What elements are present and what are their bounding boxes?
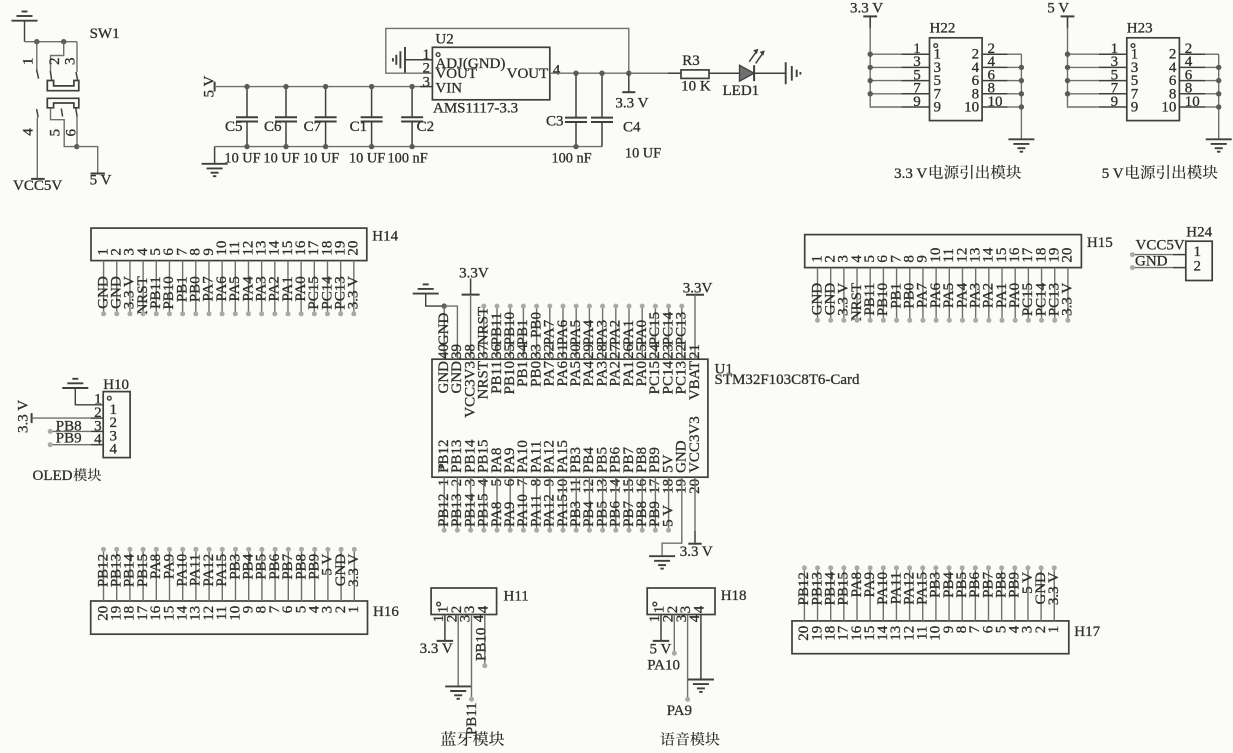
H22 right pin numbers: [964, 41, 1002, 116]
svg-text:3.3V: 3.3V: [459, 265, 489, 281]
wire H11 pin3 PB11: [471, 615, 473, 699]
junction C2 bottom: [409, 144, 414, 149]
junction 3.3V node: [626, 71, 631, 76]
wire H23 left pins: [1068, 54, 1127, 107]
svg-text:VOUT: VOUT: [507, 66, 549, 82]
wire U1 pin38: [470, 295, 472, 360]
junction U1 pin40: [442, 303, 447, 308]
switch SW1 ground (top-left): [12, 12, 38, 42]
junction C6 top: [283, 84, 288, 89]
ground (LED1, rotated): [786, 62, 801, 84]
power flag 3.3 V (H22): [863, 15, 877, 17]
connector H11 box: [431, 588, 497, 615]
svg-text:10 UF: 10 UF: [625, 146, 661, 162]
wire H24 pin1: [1132, 254, 1172, 256]
SW1 top wire: [25, 41, 78, 43]
junction C3 top: [573, 71, 578, 76]
svg-text:H24: H24: [1186, 225, 1212, 241]
svg-text:10: 10: [1185, 94, 1200, 110]
regulator U2 box: [432, 47, 549, 100]
power flag 3.3V (U1 pin38): [462, 279, 480, 295]
svg-text:VCC5V: VCC5V: [13, 178, 62, 194]
svg-text:10 UF: 10 UF: [263, 150, 299, 166]
H16 pin numbers: [95, 605, 362, 621]
ground (H23): [1206, 139, 1232, 151]
H10 endpoints: [48, 429, 53, 434]
H24 endpoints: [1130, 252, 1135, 257]
svg-text:VBAT: VBAT: [687, 361, 703, 400]
power flag 3.3V (H10): [31, 413, 33, 423]
svg-text:SW1: SW1: [90, 26, 120, 42]
power flag 5V (SW1): [91, 173, 105, 175]
svg-text:3.3 V: 3.3 V: [894, 166, 927, 182]
voice module caption: [660, 732, 719, 746]
U1 pin1 marker: [439, 464, 443, 468]
capacitor C4: [591, 73, 613, 146]
svg-text:H22: H22: [930, 21, 956, 37]
H18 pin1 marker: [653, 602, 657, 606]
svg-text:5 V: 5 V: [650, 642, 672, 658]
MCU U1 box: [432, 359, 708, 477]
U1 bottom pin endpoints: [442, 528, 671, 533]
svg-text:3.3 V: 3.3 V: [1046, 572, 1062, 605]
U2 pin1 marker: [436, 53, 440, 57]
wire U1 pin20 to 3.3V: [694, 477, 696, 531]
capacitor C2: [401, 87, 423, 147]
junctions H23 left bus: [1065, 52, 1070, 97]
junction C6 bottom: [283, 144, 288, 149]
power flag 3.3V (H11): [437, 640, 453, 642]
wire H22 left bus: [869, 16, 871, 28]
svg-text:10: 10: [988, 94, 1003, 110]
svg-text:LED1: LED1: [723, 83, 760, 99]
wire H10 pin2: [32, 417, 91, 419]
svg-text:H17: H17: [1074, 624, 1100, 640]
wire H18 pin4 to ground: [700, 615, 702, 680]
H17 pin endpoints: [802, 565, 1057, 570]
junction SW1 pin2: [61, 39, 66, 44]
power flag 5 V (H23): [1061, 15, 1075, 17]
svg-text:10 UF: 10 UF: [349, 150, 385, 166]
H16 net labels: [95, 553, 362, 587]
svg-text:21: 21: [687, 344, 703, 359]
wire H23 right pins: [1179, 54, 1218, 107]
H15 pin endpoints: [815, 318, 1070, 323]
svg-text:H16: H16: [373, 604, 399, 620]
svg-text:4: 4: [21, 128, 37, 136]
U1 top pin numbers: [436, 344, 703, 360]
svg-text:3.3 V: 3.3 V: [1060, 283, 1076, 316]
resistor R3: [681, 70, 709, 79]
wire U1 pin40: [443, 306, 445, 359]
wire H11 pin1 to 3.3V: [444, 615, 446, 641]
svg-text:VCC3V3: VCC3V3: [687, 416, 703, 473]
ground (U1 top-left): [413, 284, 445, 306]
junction C4 top: [599, 71, 604, 76]
svg-text:100 nF: 100 nF: [551, 150, 591, 166]
wire H16 pins: [104, 550, 355, 601]
wire H11 pin2 to ground: [457, 615, 459, 687]
H10 pin numbers: [94, 392, 117, 458]
wire U2 VOUT feedback loop: [386, 28, 629, 73]
ground (U2 ADJ, rotated): [393, 47, 433, 73]
junction C7 bottom: [323, 144, 328, 149]
wire U1 top pins: [484, 307, 682, 360]
svg-text:H10: H10: [103, 377, 129, 393]
wire U1 pin21: [694, 295, 696, 359]
H15 net labels: [809, 282, 1075, 321]
svg-text:C6: C6: [264, 119, 282, 135]
svg-text:3: 3: [62, 58, 78, 66]
wire U2 VIN stub: [420, 86, 432, 88]
U1 bottom pin numbers: [436, 478, 703, 494]
H23 right pin numbers: [1161, 41, 1199, 116]
connector H17 box: [792, 621, 1069, 654]
ground (U2 rail): [202, 147, 228, 177]
wire SW1 pin4 to VCC5V: [36, 117, 38, 178]
svg-text:3: 3: [423, 74, 431, 90]
svg-text:H23: H23: [1127, 21, 1153, 37]
H11 pin numbers: [431, 605, 491, 622]
H22 pin1 marker: [934, 44, 938, 48]
H14 pin numbers: [95, 240, 361, 256]
svg-text:H14: H14: [372, 228, 398, 244]
svg-text:H11: H11: [504, 589, 529, 605]
H16 pin endpoints: [101, 547, 357, 552]
H17 net labels: [796, 572, 1062, 606]
H23 left pin numbers: [1111, 41, 1139, 116]
power flag 3.3V (U1 pin21): [686, 294, 704, 296]
svg-text:PA9: PA9: [667, 703, 692, 719]
connector H16 box: [91, 601, 368, 634]
svg-text:4: 4: [692, 605, 708, 613]
svg-text:C1: C1: [350, 119, 368, 135]
svg-text:3.3 V: 3.3 V: [615, 95, 648, 111]
junction C3 bottom: [573, 144, 578, 149]
svg-text:H15: H15: [1087, 235, 1113, 251]
capacitor C1: [361, 87, 383, 147]
svg-text:4: 4: [110, 442, 118, 458]
U1 bottom pin names: [436, 416, 703, 473]
wire H23 left bus: [1067, 16, 1069, 28]
svg-text:C7: C7: [304, 119, 322, 135]
H14 net labels: [95, 276, 361, 315]
svg-text:5 V: 5 V: [90, 173, 112, 189]
connector H23 box: [1127, 38, 1180, 121]
wire SW1 to 5V flag: [77, 147, 98, 173]
H15 pin numbers: [809, 247, 1075, 263]
svg-text:C5: C5: [225, 119, 243, 135]
junction C7 top: [323, 84, 328, 89]
wire SW1 pin6: [76, 117, 78, 147]
svg-text:3.3 V: 3.3 V: [850, 0, 883, 16]
svg-text:4: 4: [553, 62, 561, 78]
svg-text:VCC5V: VCC5V: [1136, 237, 1185, 253]
svg-text:100 nF: 100 nF: [388, 150, 428, 166]
junction C2 top: [409, 84, 414, 89]
wire 3.3V to R3: [629, 72, 681, 74]
power flag 3.3V (rail): [622, 73, 635, 92]
ground (H11): [445, 686, 471, 698]
U1 top net labels: [436, 307, 690, 345]
junction SW1 pin1: [34, 39, 39, 44]
svg-text:3.3 V: 3.3 V: [420, 641, 453, 657]
power flag 5V (H18): [653, 640, 669, 642]
wire LED1 to ground: [754, 72, 786, 74]
svg-text:2: 2: [1194, 259, 1202, 275]
H17 pin numbers: [796, 625, 1062, 641]
connector H24 box: [1186, 241, 1212, 280]
junction C1 bottom: [369, 144, 374, 149]
svg-text:AMS1117-3.3: AMS1117-3.3: [433, 101, 518, 117]
ground (H10): [62, 379, 103, 405]
svg-text:PB9: PB9: [56, 431, 82, 447]
svg-text:10 UF: 10 UF: [303, 150, 339, 166]
wire H11 pin4 PB10: [484, 615, 486, 665]
LED LED1: [740, 49, 765, 81]
svg-text:PB10: PB10: [473, 628, 489, 661]
power flag 5V (rail): [214, 82, 216, 92]
wire H23 right bus: [1218, 54, 1220, 138]
svg-text:3.3 V: 3.3 V: [15, 400, 31, 433]
capacitor C5: [236, 87, 258, 147]
junction C5 top: [244, 84, 249, 89]
svg-text:C3: C3: [546, 114, 564, 130]
junction C5 bottom: [244, 144, 249, 149]
svg-text:3.3 V: 3.3 V: [346, 554, 362, 587]
junction SW1 5V node: [74, 144, 79, 149]
wire H18 pin3 PA9: [687, 615, 689, 699]
svg-text:5 V: 5 V: [1102, 166, 1124, 182]
wire H18 pin2 PA10: [673, 615, 675, 653]
U1 top pin endpoints: [481, 304, 684, 309]
svg-text:1: 1: [1046, 626, 1062, 634]
ground (U1 pin19): [649, 556, 675, 568]
wire H18 pin1 to 5V: [660, 615, 662, 641]
svg-text:R3: R3: [682, 53, 700, 69]
svg-text:1: 1: [20, 58, 36, 66]
wire SW1 pin5: [51, 108, 78, 147]
wire H17 pins: [804, 569, 1054, 621]
svg-text:5 V: 5 V: [1047, 0, 1069, 16]
svg-text:3.3 V: 3.3 V: [346, 276, 362, 309]
wire H22 right pins: [982, 54, 1021, 107]
connector H15 box: [805, 235, 1082, 268]
H11 pin1 marker: [437, 602, 441, 606]
wire H10 pin3 PB8: [50, 430, 91, 432]
svg-text:10: 10: [1161, 100, 1176, 116]
wire H24 pin2: [1132, 267, 1172, 269]
wire U1 bottom pins: [444, 477, 668, 529]
U1 bottom net labels: [436, 493, 676, 527]
wire H22 right bus: [1020, 54, 1022, 138]
wire H14 pins: [104, 261, 354, 313]
svg-text:GND: GND: [436, 313, 452, 346]
svg-text:GND: GND: [1135, 253, 1168, 269]
svg-text:PA10: PA10: [647, 657, 680, 673]
svg-text:5 V: 5 V: [660, 505, 676, 527]
U1 top pin names: [436, 361, 703, 418]
wire H10 pin4 PB9: [50, 444, 91, 446]
svg-text:H18: H18: [721, 588, 747, 604]
svg-text:9: 9: [913, 94, 921, 110]
svg-text:1: 1: [346, 606, 362, 614]
bluetooth module caption: [441, 731, 504, 746]
svg-text:2: 2: [47, 57, 63, 65]
junctions H22 right bus: [1019, 65, 1024, 110]
connector H10 box: [103, 392, 130, 458]
H22 left pin numbers: [913, 41, 941, 116]
junctions H23 right bus: [1216, 65, 1221, 110]
svg-text:20: 20: [346, 241, 362, 256]
H14 pin endpoints: [101, 311, 356, 316]
capacitor C7: [315, 87, 337, 147]
svg-text:10: 10: [964, 100, 979, 116]
svg-text:9: 9: [1131, 100, 1139, 116]
wire R3 to LED1: [709, 72, 740, 74]
power flag VCC5V: [31, 178, 45, 180]
svg-text:STM32F103C8T6-Card: STM32F103C8T6-Card: [715, 372, 861, 388]
svg-text:VIN: VIN: [435, 80, 462, 96]
connector H22 box: [930, 38, 983, 121]
svg-text:20: 20: [1060, 248, 1076, 263]
ground (H18): [688, 680, 714, 692]
svg-text:OLED: OLED: [33, 468, 73, 484]
svg-text:PC13: PC13: [674, 312, 690, 345]
capacitor C3: [565, 73, 587, 146]
capacitor C6: [275, 87, 297, 147]
connector H18 box: [647, 588, 715, 615]
svg-text:C4: C4: [623, 120, 641, 136]
svg-text:U2: U2: [435, 32, 453, 48]
wire U1 pin19 to ground: [662, 477, 682, 556]
ground (H22): [1008, 139, 1034, 151]
H23 pin1 marker: [1131, 44, 1135, 48]
H10 pin1 marker: [107, 396, 111, 400]
switch SW1: [37, 42, 79, 118]
svg-text:9: 9: [934, 100, 942, 116]
svg-text:10 UF: 10 UF: [224, 150, 260, 166]
H18 pin numbers: [647, 605, 707, 622]
svg-text:5: 5: [47, 129, 63, 137]
svg-text:9: 9: [1111, 94, 1119, 110]
svg-text:PB11: PB11: [464, 702, 480, 735]
svg-text:10 K: 10 K: [681, 79, 711, 95]
svg-text:3.3V: 3.3V: [683, 280, 713, 296]
svg-text:4: 4: [475, 605, 491, 613]
wire U1 pin39: [444, 306, 457, 359]
wire 5V rail: [215, 86, 424, 88]
svg-text:3.3 V: 3.3 V: [680, 544, 713, 560]
wire ground rail: [215, 146, 602, 148]
connector H14 box: [91, 228, 367, 261]
power flag 3.3V (U1 pin20): [688, 543, 701, 545]
wire U2 pin4 output: [550, 72, 672, 74]
svg-text:C2: C2: [417, 119, 435, 135]
wire H22 left pins: [870, 54, 929, 107]
junctions H22 left bus: [868, 52, 873, 97]
wire H15 pins: [818, 268, 1068, 320]
junction C1 top: [369, 84, 374, 89]
